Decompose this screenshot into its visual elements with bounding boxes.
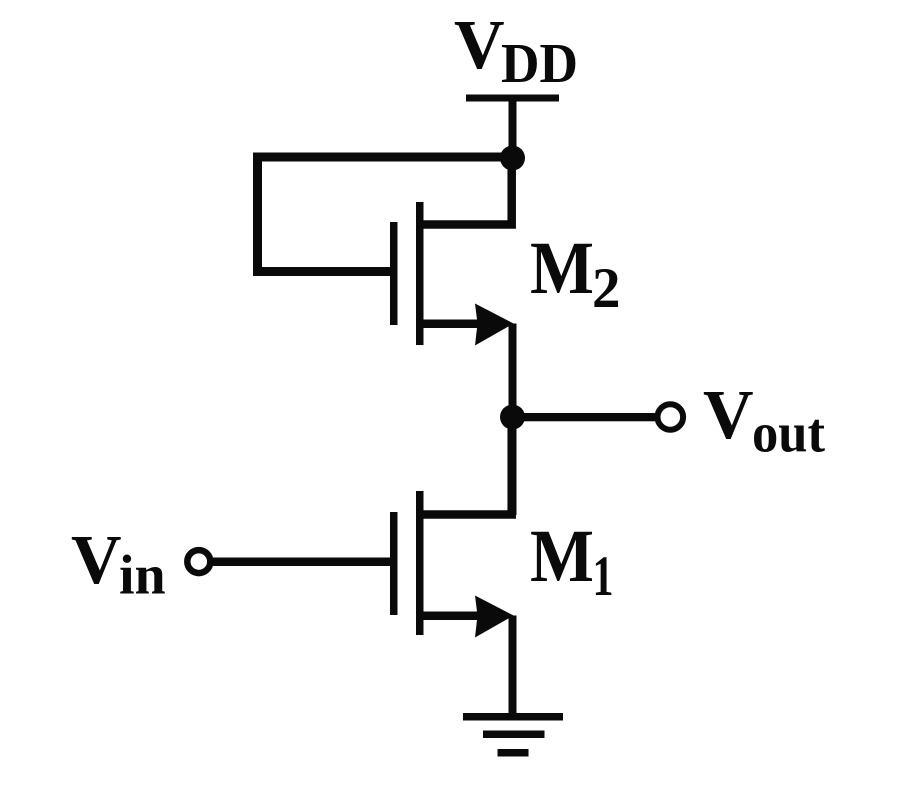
label M1 [530, 515, 614, 608]
svg-text:2: 2 [592, 257, 621, 320]
svg-text:V: V [454, 7, 505, 84]
label Vout [703, 377, 825, 465]
svg-text:1: 1 [593, 545, 614, 608]
wire M1 source to ground [509, 616, 517, 717]
source arrow M2 [475, 304, 514, 346]
wire feedback left vertical [253, 153, 262, 277]
source wire M2 [420, 320, 492, 329]
source wire M1 [420, 612, 492, 621]
ground symbol [463, 713, 563, 757]
gate bar M1 [390, 512, 398, 615]
svg-text:DD: DD [501, 33, 578, 95]
gate bar M2 [390, 222, 398, 325]
node N1 junction dot [500, 146, 525, 171]
drain wire M1 [420, 417, 512, 515]
node Vout junction dot [500, 405, 525, 430]
svg-text:in: in [119, 545, 166, 607]
svg-text:V: V [703, 377, 754, 454]
transistor M2 [390, 158, 514, 346]
svg-text:M: M [530, 515, 594, 598]
svg-text:M: M [530, 227, 594, 310]
label M2 [530, 227, 621, 320]
wire M2 source to output node [509, 324, 517, 418]
drain wire M2 [420, 158, 512, 225]
channel bar M2 [416, 202, 424, 345]
channel bar M1 [416, 491, 424, 635]
transistor M1 [390, 417, 514, 638]
wire Vin to gate of M1 [210, 558, 394, 567]
wire output node to M1 drain [509, 417, 517, 515]
svg-text:out: out [752, 403, 825, 465]
label Vin [71, 522, 166, 607]
label VDD [454, 7, 578, 95]
wire feedback top horizontal (node N1 to left) [253, 153, 513, 162]
terminal Vin open circle [187, 550, 210, 573]
svg-text:V: V [71, 522, 122, 599]
source arrow M1 [475, 596, 514, 638]
power VDD supply bar [466, 95, 559, 102]
wire VDD bar to node N1 [509, 98, 517, 158]
terminal Vout open circle [658, 404, 684, 430]
wire feedback bottom horizontal (to gate of M2) [253, 267, 398, 276]
wire output horizontal [513, 413, 658, 421]
